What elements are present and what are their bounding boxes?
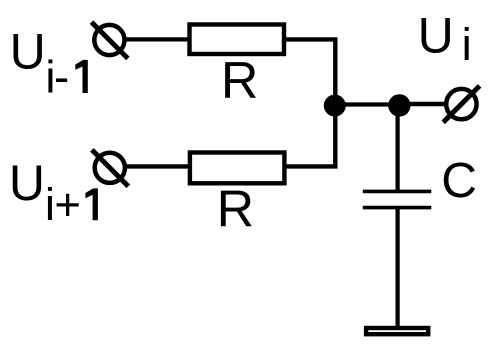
- svg-text:R: R: [217, 180, 255, 238]
- wire R2 to node A: [284, 106, 335, 167]
- wire node A to node B: [335, 102, 400, 106]
- svg-text:-: -: [54, 52, 69, 103]
- terminal U_i: [443, 86, 479, 122]
- wire capacitor to ground: [396, 208, 400, 326]
- wire node B to terminal U_i: [399, 102, 447, 107]
- node A junction dot: [324, 95, 346, 117]
- capacitor C1 top plate: [363, 190, 432, 194]
- wire node B down to capacitor: [396, 105, 400, 191]
- svg-text:U: U: [418, 8, 454, 64]
- label U_i+1: [9, 155, 98, 230]
- svg-text:C: C: [441, 153, 477, 208]
- label U_i: [418, 8, 472, 70]
- node B junction dot: [388, 94, 410, 116]
- svg-text:R: R: [221, 52, 259, 110]
- capacitor C1 bottom plate: [363, 206, 432, 210]
- svg-text:i: i: [462, 19, 472, 70]
- wire terminal1 to R1: [124, 37, 190, 41]
- wire R1 to node A: [284, 39, 335, 105]
- label U_i-1: [10, 23, 88, 102]
- terminal U_i-1: [92, 22, 128, 58]
- ground: [366, 328, 428, 334]
- wire terminal2 to R2: [124, 164, 190, 168]
- svg-text:U: U: [9, 155, 45, 211]
- terminal U_i+1: [92, 150, 128, 186]
- resistor R2: [190, 153, 285, 184]
- svg-text:U: U: [10, 23, 46, 79]
- resistor R1: [190, 25, 285, 55]
- svg-text:+: +: [54, 179, 81, 230]
